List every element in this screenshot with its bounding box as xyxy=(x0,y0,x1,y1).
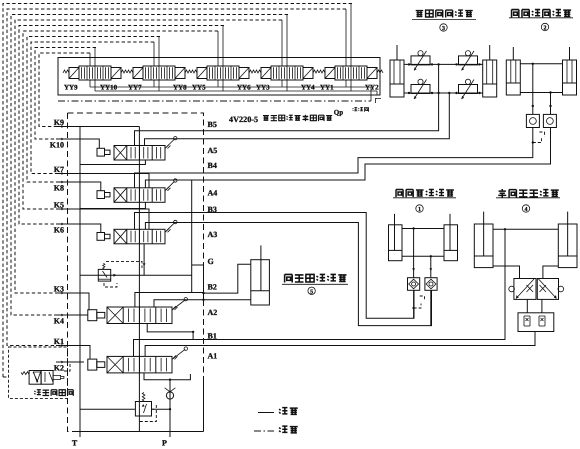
svg-text:K5: K5 xyxy=(54,201,64,210)
wire group4 top line xyxy=(493,228,558,230)
title 后门锁紧油缸 xyxy=(396,190,403,198)
svg-text:YY4: YY4 xyxy=(301,84,315,92)
port K1 xyxy=(56,345,73,347)
wire B2 to cylinder 5 rod side xyxy=(204,264,251,293)
valve V2 (A4/B4) spool xyxy=(114,188,165,203)
wire group1 left output xyxy=(413,290,415,318)
wire group1 top line xyxy=(402,228,444,230)
title 车厢举升油缸 xyxy=(498,189,506,197)
svg-text:K6: K6 xyxy=(54,226,64,235)
wire group1 right drop xyxy=(430,256,432,277)
wire group4 valve outputs xyxy=(526,299,528,312)
check valve group1 left xyxy=(408,278,420,291)
svg-text:YY6: YY6 xyxy=(237,84,251,92)
pneumatic limit valve enclosure (dashed) xyxy=(9,347,68,398)
wire V2 tank return xyxy=(80,202,145,208)
wire exhaust dash-dot line under bank xyxy=(58,100,371,102)
wire group2 piston-side row xyxy=(520,92,562,94)
pneumatic limit valve 气控限位阀 xyxy=(29,371,41,385)
wire bank bus 1 xyxy=(90,86,371,88)
wire V1 B5 line xyxy=(135,131,204,146)
wire K9 feed line xyxy=(62,126,139,128)
svg-text:A1: A1 xyxy=(208,352,218,361)
wire group3 rod-side row xyxy=(404,63,483,65)
wire group2 left drop xyxy=(532,64,534,115)
wire pneumatic nest line to K3 xyxy=(15,20,282,293)
wire A1 to group 4 xyxy=(204,332,536,346)
throttle-check valve group3 lower-left xyxy=(411,85,430,94)
wire bank outlet corner xyxy=(375,99,381,104)
svg-text:Qp: Qp xyxy=(334,109,343,117)
wire pilot drops of YY3/YY4 xyxy=(281,20,283,66)
wire pilot drops of YY9/YY10 xyxy=(89,53,91,66)
wire relief to T bus xyxy=(80,408,135,410)
svg-text:K3: K3 xyxy=(54,285,64,294)
manifold enclosure (dashed) xyxy=(68,113,204,381)
cylinder 1R xyxy=(444,225,458,261)
svg-text:B4: B4 xyxy=(208,161,217,170)
wire P riser xyxy=(169,380,171,432)
wire K1 jog xyxy=(62,346,90,359)
wire G line xyxy=(192,264,204,266)
svg-text:5: 5 xyxy=(310,290,313,296)
legend label 油路 xyxy=(279,408,287,414)
svg-text:K7: K7 xyxy=(54,165,64,174)
wire group1 right output xyxy=(430,290,432,325)
svg-text:A4: A4 xyxy=(208,189,218,198)
wire pneumatic nest line to K10 xyxy=(35,48,96,140)
wire group1 bottom line xyxy=(402,255,444,257)
wire V2 A4 line xyxy=(192,179,204,181)
port K4 xyxy=(56,314,73,316)
cylinder 5 (scraper shift) xyxy=(251,260,270,305)
svg-text:P: P xyxy=(162,439,167,448)
counterbalance valve group4 right xyxy=(537,279,558,300)
wire V2 B4 line xyxy=(135,173,204,188)
cylinder 1L xyxy=(389,225,403,261)
wire V3 down line xyxy=(144,244,192,275)
pilot dash lines group1 xyxy=(420,296,425,301)
valve V1 (A5/B5) pilot box xyxy=(97,148,105,156)
svg-text:K1: K1 xyxy=(54,337,64,346)
wire pneumatic nest line to K1 xyxy=(7,9,346,346)
wire bank outlet Qp xyxy=(370,87,372,101)
wire group1 left drop xyxy=(413,229,415,278)
wire V5 A1 line xyxy=(145,346,203,357)
port K2 xyxy=(56,361,73,363)
wire T bus xyxy=(79,127,81,432)
svg-text:4V220-5: 4V220-5 xyxy=(229,115,258,124)
valve V5 (A1/B1) spool xyxy=(107,356,172,373)
wire V3 B3 line xyxy=(135,213,204,230)
svg-text:YY10: YY10 xyxy=(100,84,118,92)
label circled 1 xyxy=(416,205,423,212)
pilot dash lines group2 xyxy=(539,132,544,137)
cylinder 2L xyxy=(506,60,520,95)
wire group2 right drop xyxy=(550,93,552,115)
title 顶盖启闭油缸 xyxy=(416,11,424,17)
sequence valve xyxy=(98,269,110,281)
wire V3 A3 line xyxy=(192,222,204,224)
svg-text:3: 3 xyxy=(442,26,445,32)
wire A4 to group 2 xyxy=(204,128,551,181)
wire manifold bottom solid line xyxy=(74,431,204,433)
dual pilot check block group4 xyxy=(518,313,554,332)
wire K7 feed xyxy=(62,174,149,188)
label circled 5 xyxy=(308,287,315,294)
svg-text:A2: A2 xyxy=(208,308,218,317)
port K7 xyxy=(56,173,73,175)
svg-text:1: 1 xyxy=(418,207,421,213)
wire V4 A2 line xyxy=(154,300,204,307)
wire B3 to group 1 xyxy=(204,213,415,319)
wire V2 loop to frame bus xyxy=(145,180,191,293)
wire group4 left piston line xyxy=(493,266,520,279)
wire K2 feed xyxy=(62,361,84,363)
valve V4 (A2/B2) spool xyxy=(107,307,172,324)
svg-text:K9: K9 xyxy=(54,118,64,127)
wire group4 right piston line xyxy=(543,266,558,279)
legend label 气路 xyxy=(279,426,287,432)
relief valve pilot dash lines xyxy=(152,408,157,410)
svg-text:T: T xyxy=(72,439,78,448)
valve V4 (A2/B2) pilot box xyxy=(88,310,97,321)
wire V5 bottom line xyxy=(144,373,190,380)
svg-text:A3: A3 xyxy=(208,230,218,239)
wire outputs of YY5/YY6 inside bank xyxy=(217,80,219,87)
wire V4 B2 line xyxy=(135,293,204,308)
wire A3 to group 1 xyxy=(204,223,432,326)
port K8 xyxy=(56,181,73,183)
cylinder 4L xyxy=(474,224,493,268)
wire pneumatic nest line to K5 xyxy=(23,31,218,209)
valve V3 (A3/B3) spool xyxy=(114,229,165,244)
manifold edge solid lower-right xyxy=(203,381,205,432)
wire pneumatic nest line to K9 xyxy=(39,53,90,127)
counterbalance valve group4 left xyxy=(514,279,536,300)
wire outputs of YY1/YY2 inside bank xyxy=(345,80,347,87)
valve V2 (A4/B4) pilot box xyxy=(97,191,105,199)
title 后门启闭油缸 xyxy=(512,10,519,18)
wire pneumatic nest line to limit valve / K2 xyxy=(3,4,352,378)
wire outputs of YY7/YY8 inside bank xyxy=(153,80,155,87)
svg-text:YY9: YY9 xyxy=(64,84,78,92)
cylinder 4R xyxy=(558,224,577,268)
wire bank bus 2 xyxy=(95,90,377,92)
label 气控限位阀 xyxy=(34,390,41,395)
svg-text:G: G xyxy=(208,257,214,266)
wire pneumatic nest line to K4 xyxy=(11,15,288,316)
wire V1 tank return xyxy=(80,160,145,165)
solenoid pilot valve YY5/YY6 xyxy=(207,66,239,80)
cylinder 2R xyxy=(563,60,577,95)
wire outputs of YY3/YY4 inside bank xyxy=(281,80,283,87)
legend oil line sample xyxy=(258,412,274,414)
port K10 xyxy=(56,138,73,140)
port K6 xyxy=(56,223,73,225)
valve V5 (A1/B1) pilot box xyxy=(88,359,97,370)
wire sequence valve line to T bus xyxy=(80,274,144,276)
wire K4 feed xyxy=(62,314,88,316)
port P xyxy=(169,432,171,438)
wire vertical bus xyxy=(138,127,140,432)
wire pilot drops of YY1/YY2 xyxy=(345,9,347,66)
port K5 xyxy=(56,208,73,210)
port K3 xyxy=(56,292,73,294)
wire A2 to cylinder 5 piston side xyxy=(204,299,251,301)
svg-text:B2: B2 xyxy=(208,283,217,292)
wire pneumatic nest line to K7 xyxy=(31,42,154,174)
wire pilot drops of YY5/YY6 xyxy=(217,31,219,66)
valve bank enclosure xyxy=(58,58,380,96)
svg-text:4: 4 xyxy=(525,207,528,213)
wire bank outlet exhaust xyxy=(376,91,378,95)
wire V3 A-line loop xyxy=(145,223,191,230)
throttle-check valve group3 upper-left xyxy=(411,56,430,65)
wire edge solid segment G-A2 xyxy=(203,265,205,300)
port T xyxy=(79,432,81,438)
svg-text:YY2: YY2 xyxy=(365,84,379,92)
pilot check valve group2 right xyxy=(543,114,556,127)
wire group3 piston-side row xyxy=(404,92,483,94)
wire K5 feed xyxy=(62,209,149,229)
svg-text:YY1: YY1 xyxy=(320,84,334,92)
legend gas line sample xyxy=(254,430,274,432)
svg-text:YY7: YY7 xyxy=(128,84,142,92)
svg-text:YY8: YY8 xyxy=(173,84,187,92)
sequence valve pilot dash xyxy=(106,261,142,268)
wire relief to P line xyxy=(152,408,171,410)
throttle-check valve group3 upper-right xyxy=(459,56,478,65)
svg-text:K4: K4 xyxy=(54,317,64,326)
svg-text:K8: K8 xyxy=(54,184,64,193)
relief valve xyxy=(135,402,151,417)
throttle-check valve group3 lower-right xyxy=(459,85,478,94)
wire B1 to group 4 xyxy=(204,229,506,339)
wire pneumatic nest line to K8 xyxy=(27,37,160,183)
wire K3 jog xyxy=(62,293,89,310)
exhaust port label 排气口 xyxy=(353,107,358,110)
check valve on P line xyxy=(166,392,173,399)
wire pneumatic nest line to K6 xyxy=(19,26,224,225)
wire K10 jog to pilot xyxy=(62,139,99,149)
svg-text:YY5: YY5 xyxy=(192,84,206,92)
wire V1 A5 line xyxy=(145,139,204,146)
svg-text:K10: K10 xyxy=(50,141,64,150)
label circled 3 xyxy=(440,24,447,31)
wire outputs of YY9/YY10 inside bank xyxy=(89,80,91,87)
solenoid pilot valve YY3/YY4 xyxy=(271,66,303,80)
valve V3 (A3/B3) pilot box xyxy=(97,233,105,241)
wire V5 B1 line xyxy=(134,340,204,357)
svg-text:2: 2 xyxy=(544,26,547,32)
wire pilot drops of YY7/YY8 xyxy=(153,42,155,66)
cylinder 5 rod xyxy=(260,245,262,290)
svg-text:A5: A5 xyxy=(208,146,218,155)
wire group2 rod-side row xyxy=(520,63,562,65)
label circled 2 xyxy=(541,23,548,30)
solenoid pilot valve YY7/YY8 xyxy=(143,66,175,80)
cylinder 3L xyxy=(390,60,404,97)
check valve group1 right xyxy=(425,278,437,291)
wire nest to limit valve xyxy=(3,376,9,378)
svg-text:YY3: YY3 xyxy=(256,84,270,92)
wire K6 jog xyxy=(62,224,101,232)
wire V4 top line xyxy=(147,324,193,340)
wire B4 to group 2 xyxy=(204,128,533,174)
svg-text:B5: B5 xyxy=(208,120,217,129)
wire limit valve to K2 xyxy=(64,362,70,371)
title 刮板推移油缸 xyxy=(285,274,293,282)
sequence valve arrow tick xyxy=(114,274,117,277)
solenoid pilot valve YY9/YY10 xyxy=(79,66,111,80)
svg-text:K2: K2 xyxy=(54,364,64,373)
valve V1 (A5/B5) spool xyxy=(114,146,165,161)
wire A5 to group 3 xyxy=(204,93,450,139)
pilot check valve group2 left xyxy=(526,114,539,127)
wire B5 to group 3 xyxy=(204,64,439,130)
wire K8 jog xyxy=(62,182,101,191)
cylinder 3R xyxy=(483,60,497,97)
port K9 xyxy=(56,126,73,128)
label circled 4 xyxy=(522,205,529,212)
solenoid pilot valve YY1/YY2 xyxy=(335,66,367,80)
